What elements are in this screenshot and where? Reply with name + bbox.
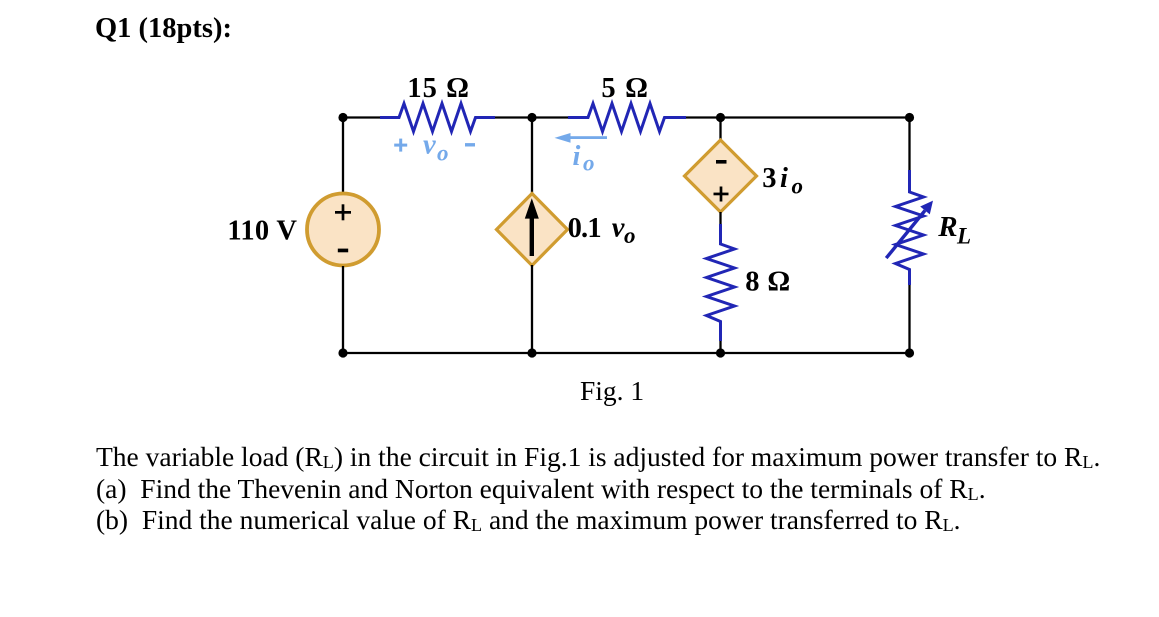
label 15 ohm [407,73,469,104]
svg-text:o: o [583,151,595,176]
resistor R 15ohm zigzag [380,104,495,132]
wire left vertical lower (source to bottom) [342,266,344,353]
caption Fig. 1 [580,375,644,407]
svg-text:o: o [437,141,449,166]
voltage source 110V circle [307,194,379,266]
resistor RL vertical zigzag (blue, variable) [886,170,933,285]
dependent current source 0.1vo diamond [497,194,568,266]
svg-text:o: o [792,174,804,199]
node B (top mid junction) [527,113,536,122]
wire right vertical upper (node D down) [908,118,910,171]
label 0.1 vo [568,212,636,248]
node D (top far right junction) [905,113,914,122]
wire top mid (15ohm to node B) [495,116,568,118]
wire mid vertical lower (diamond to bottom node) [531,265,533,353]
node G (bottom right junction) [716,348,725,357]
node F (bottom mid junction) [527,348,536,357]
problem statement paragraph [96,441,1100,536]
label 3 io [762,163,803,199]
wire right vertical lower (RL to bottom node D') [908,285,910,353]
svg-text:i: i [780,163,788,194]
node C (top right junction) [716,113,725,122]
svg-text:0.1: 0.1 [568,213,602,244]
title Q1 (18pts): [95,13,232,45]
wire below 8ohm to bottom node [719,341,721,353]
label 8 ohm [745,267,790,298]
label io [573,141,595,176]
svg-text:3: 3 [762,163,776,194]
svg-text:i: i [573,141,581,172]
arrow io (current direction, pointing left) [555,133,608,143]
wire stub below 3io diamond (black) [719,212,721,224]
label 110 V [227,216,297,247]
resistor 5ohm zigzag [568,104,686,132]
svg-text:5 Ω: 5 Ω [601,73,648,104]
svg-text:15 Ω: 15 Ω [407,73,469,104]
wire top left (node A to 15ohm) [343,116,380,118]
svg-text:R: R [937,211,957,243]
wire top right (5ohm to node C to node D) [686,116,910,118]
dependent voltage source 3io diamond [685,140,757,212]
svg-text:v: v [612,212,625,243]
svg-text:L: L [956,224,971,249]
wire bottom [343,352,910,354]
svg-text:110 V: 110 V [227,216,297,247]
wire left vertical (node A down to source) [342,118,344,194]
wire from node C down to 3io diamond [719,118,721,142]
wire mid vertical upper (node B down to diamond) [531,118,533,195]
svg-text:v: v [423,130,436,161]
node E (bottom left junction) [338,348,347,357]
label 5 ohm [601,73,648,104]
label RL [937,211,971,249]
node A (top left junction) [338,113,347,122]
svg-text:8 Ω: 8 Ω [745,267,790,298]
label + vo - (polarity of vo) [394,130,475,166]
svg-text:o: o [624,223,636,248]
resistor 8ohm vertical zigzag (blue) [707,224,735,341]
node H (bottom far right junction) [905,348,914,357]
